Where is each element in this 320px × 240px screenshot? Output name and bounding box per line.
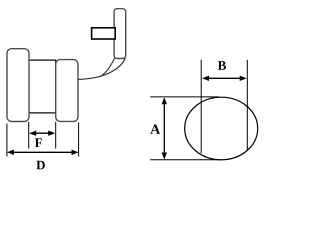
right wheel [56, 60, 78, 122]
pin block [92, 28, 116, 39]
label B [218, 61, 226, 70]
B extension line right [246, 60, 248, 151]
A dimension arrow [162, 97, 167, 159]
D extension line right [78, 123, 80, 157]
neck inner curve [99, 58, 115, 77]
B dimension arrow [202, 76, 247, 81]
left wheel [7, 49, 29, 122]
label D [36, 161, 45, 170]
label A [150, 125, 160, 134]
A extension line top [150, 96, 219, 98]
wheel face ellipse [185, 97, 258, 160]
F extension line left [28, 122, 30, 149]
F extension line right [55, 122, 57, 149]
neck outer curve [79, 58, 126, 79]
stem [114, 9, 126, 59]
F dimension arrow [29, 131, 55, 136]
B extension line left [200, 60, 202, 154]
D dimension arrow [7, 150, 79, 155]
hub between wheels [29, 60, 56, 113]
label F [35, 138, 42, 147]
D extension line left [6, 124, 8, 157]
A extension line bottom [150, 159, 222, 161]
